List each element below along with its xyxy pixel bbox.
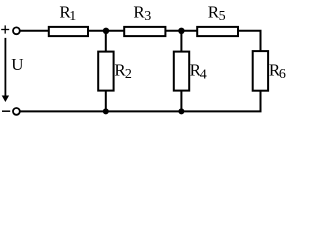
wire bottom rail	[20, 110, 261, 112]
svg-text:1: 1	[69, 9, 76, 24]
junction node B top of R4	[178, 28, 184, 34]
resistor R3	[124, 27, 165, 36]
wire node B to R5	[181, 30, 197, 32]
wire top rail: + terminal to R1	[20, 30, 48, 32]
svg-text:3: 3	[144, 9, 151, 24]
svg-text:5: 5	[219, 9, 226, 24]
label R1	[59, 2, 76, 24]
wire R2 top	[105, 31, 107, 52]
resistor R4	[174, 52, 189, 91]
svg-text:6: 6	[279, 67, 286, 82]
voltage arrow U	[2, 38, 9, 102]
wire node A to R3	[106, 30, 124, 32]
label R3	[133, 2, 151, 24]
label R2	[114, 60, 131, 82]
svg-text:2: 2	[125, 67, 132, 82]
junction bottom of R2	[103, 108, 109, 114]
label R4	[190, 61, 207, 83]
wire R2 bottom	[105, 91, 107, 112]
wire R4 top	[180, 31, 182, 52]
terminal bottom negative	[13, 108, 20, 115]
resistor R1	[49, 27, 88, 36]
svg-text:4: 4	[200, 67, 207, 82]
junction node A top of R2	[103, 28, 109, 34]
wire R4 bottom	[180, 91, 182, 112]
svg-text:U: U	[11, 55, 23, 74]
resistor R6	[253, 51, 268, 91]
wire R3 to node B	[165, 30, 181, 32]
wire R1 to node A	[89, 30, 106, 32]
resistor R2	[98, 52, 113, 91]
resistor R5	[197, 27, 238, 36]
label R5	[208, 2, 226, 24]
label plus	[1, 25, 9, 33]
wire R5 to top right corner down to R6	[238, 31, 261, 51]
label minus	[2, 110, 10, 112]
label R6	[269, 60, 286, 82]
terminal top positive	[13, 27, 20, 34]
wire R6 bottom to bottom rail	[260, 91, 262, 112]
junction bottom of R4	[178, 108, 184, 114]
